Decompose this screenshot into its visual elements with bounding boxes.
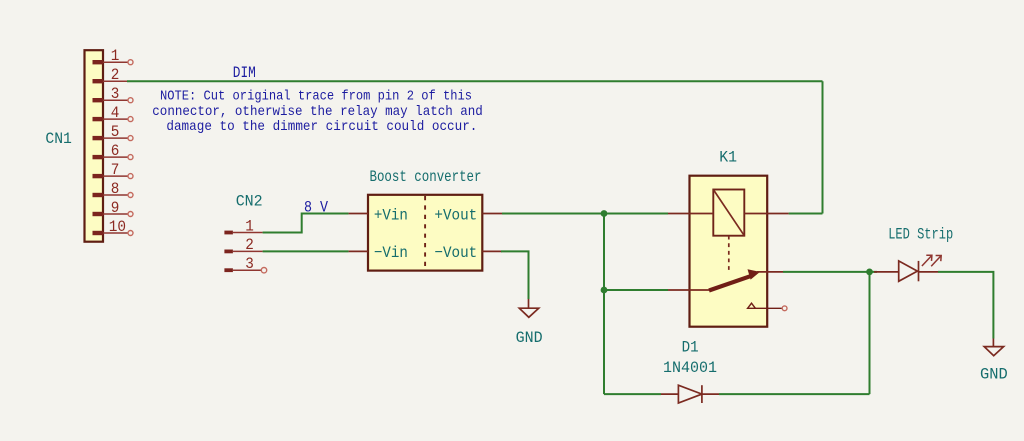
junction at LED / D1 branch (866, 269, 873, 276)
svg-text:Boost converter: Boost converter (370, 168, 482, 186)
svg-text:4: 4 (111, 104, 120, 122)
junction at relay common branch (601, 287, 608, 294)
svg-text:7: 7 (111, 161, 120, 179)
svg-text:+Vout: +Vout (434, 206, 477, 224)
svg-text:+Vin: +Vin (374, 206, 408, 224)
svg-text:NOTE: Cut original trace from: NOTE: Cut original trace from pin 2 of t… (160, 89, 472, 105)
relay coil left pin (668, 213, 713, 215)
CN1 pin 10 (93, 218, 134, 236)
boost -Vout pin (434, 244, 502, 262)
LED D2 symbol (874, 255, 941, 281)
svg-text:1: 1 (111, 47, 120, 65)
wire DIM vertical down to relay coil (822, 81, 824, 213)
CN1 pin 2 (93, 66, 128, 84)
wire to relay common pin (604, 289, 668, 291)
wire DIM to relay coil right pin (789, 213, 823, 215)
wire vertical +Vout down to D1 row (603, 214, 605, 395)
wire DIM horizontal from CN1 pin 2 (127, 80, 823, 82)
ground GND1 (519, 299, 538, 317)
svg-text:GND: GND (516, 329, 543, 347)
diode D1 symbol (661, 385, 719, 403)
wire D1 anode branch (604, 393, 661, 395)
svg-text:6: 6 (111, 142, 120, 160)
svg-text:3: 3 (111, 85, 120, 103)
CN1 pin 8 (93, 180, 134, 198)
svg-text:3: 3 (245, 255, 254, 273)
wire -Vout to GND (501, 251, 529, 299)
CN1 pin 7 (93, 161, 134, 179)
svg-text:8: 8 (111, 180, 120, 198)
CN1 pin 6 (93, 142, 134, 160)
svg-text:2: 2 (245, 236, 254, 254)
svg-text:damage to the dimmer circuit c: damage to the dimmer circuit could occur… (166, 119, 477, 135)
relay coil rectangle (713, 190, 744, 236)
relay coil right pin (744, 213, 788, 215)
CN2 pin 2 (224, 236, 262, 254)
svg-text:D1: D1 (682, 338, 699, 356)
CN2 pin 3 (224, 255, 266, 273)
svg-text:10: 10 (109, 218, 126, 236)
wire boost +Vout to relay coil left (502, 213, 668, 215)
wire junction down to D1 cathode row (869, 272, 871, 394)
relay switch arm (709, 269, 760, 290)
svg-text:LED Strip: LED Strip (888, 226, 953, 244)
svg-text:1: 1 (245, 217, 254, 235)
svg-text:−Vin: −Vin (374, 244, 408, 262)
CN1 pin 9 (93, 199, 134, 217)
relay NC contact (748, 303, 787, 310)
wire D1 cathode to LED branch (719, 393, 870, 395)
CN1 pin 4 (93, 104, 134, 122)
CN1 pin 3 (93, 85, 134, 103)
svg-text:GND: GND (980, 366, 1008, 384)
connector CN1 body (85, 50, 104, 242)
svg-text:K1: K1 (719, 149, 737, 167)
wire CN2 pin1 to boost +Vin (263, 214, 349, 233)
relay NO contact pin (757, 271, 783, 273)
svg-text:connector, otherwise the relay: connector, otherwise the relay may latch… (152, 104, 483, 120)
CN1 pin 5 (93, 123, 134, 141)
svg-text:CN2: CN2 (236, 193, 263, 211)
boost +Vout pin (434, 206, 502, 224)
wire relay NO to LED junction (783, 271, 877, 273)
svg-text:DIM: DIM (233, 64, 256, 82)
CN1 pin 1 (93, 47, 134, 65)
boost +Vin pin (349, 206, 408, 224)
boost -Vin pin (349, 244, 408, 262)
svg-text:2: 2 (111, 66, 120, 84)
svg-text:CN1: CN1 (45, 130, 72, 148)
boost converter U1 body (368, 195, 482, 271)
wire LED cathode to GND (938, 272, 993, 339)
svg-text:9: 9 (111, 199, 120, 217)
svg-text:−Vout: −Vout (434, 244, 477, 262)
CN2 pin 1 (224, 217, 262, 235)
relay actuator dashed link (728, 236, 730, 273)
ground GND2 (984, 339, 1003, 356)
relay K1 body (690, 176, 768, 327)
relay common pin (668, 289, 710, 291)
svg-text:1N4001: 1N4001 (663, 359, 717, 377)
junction at +Vout / relay coil (601, 210, 608, 217)
wire CN2 pin2 to boost -Vin (263, 250, 349, 252)
svg-text:5: 5 (111, 123, 120, 141)
